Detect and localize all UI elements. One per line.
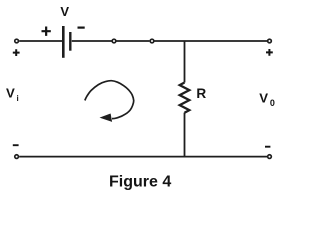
node circle 2 [150, 39, 154, 43]
battery minus sign [78, 27, 85, 29]
terminal node bottom-left [15, 155, 19, 159]
battery V positive plate [62, 26, 65, 58]
battery plus sign [42, 27, 51, 36]
terminal node top-right [268, 39, 272, 43]
wire resistor branch upper [184, 41, 186, 83]
minus bottom-right [265, 146, 270, 148]
battery V negative plate [69, 32, 71, 51]
terminal node top-left [15, 39, 19, 43]
wire left terminal to battery [19, 40, 62, 42]
svg-text:V0: V0 [259, 91, 275, 108]
svg-text:V: V [60, 4, 69, 19]
svg-text:R: R [196, 86, 206, 101]
wire node circle 2 to right terminal [155, 40, 268, 42]
resistor R zigzag [180, 83, 190, 113]
svg-text:Vi: Vi [6, 86, 19, 103]
wire node circle 1 to node circle 2 [117, 40, 150, 42]
node circle 1 [112, 39, 116, 43]
svg-text:Figure 4: Figure 4 [109, 173, 171, 190]
wire bottom [19, 156, 267, 158]
plus top-right [266, 49, 273, 56]
plus top-left [13, 49, 20, 56]
loop arrowhead [100, 114, 113, 122]
minus bottom-left [13, 144, 19, 146]
mesh current loop arrow [85, 81, 134, 119]
terminal node bottom-right [268, 155, 272, 159]
wire resistor branch lower [184, 113, 186, 157]
wire battery to node circle 1 [72, 40, 112, 42]
